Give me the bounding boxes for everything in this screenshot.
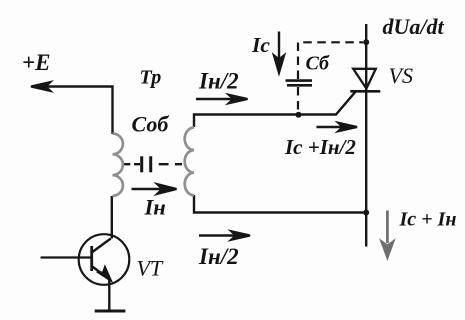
svg-text:dUa/dt: dUa/dt [383, 14, 445, 39]
svg-text:Iн/2: Iн/2 [198, 244, 239, 269]
svg-text:Тр: Тр [140, 67, 162, 89]
svg-text:Ic: Ic [251, 33, 270, 57]
svg-text:Ic +Iн/2: Ic +Iн/2 [284, 135, 356, 159]
svg-text:Сб: Сб [306, 53, 330, 75]
svg-text:+E: +E [22, 50, 50, 75]
svg-text:VS: VS [389, 63, 413, 88]
svg-text:Iн/2: Iн/2 [198, 69, 239, 94]
svg-text:Ic + Iн: Ic + Iн [399, 209, 457, 231]
svg-text:Соб: Соб [132, 112, 170, 137]
svg-text:VT: VT [137, 256, 164, 281]
svg-text:Iн: Iн [144, 195, 166, 220]
